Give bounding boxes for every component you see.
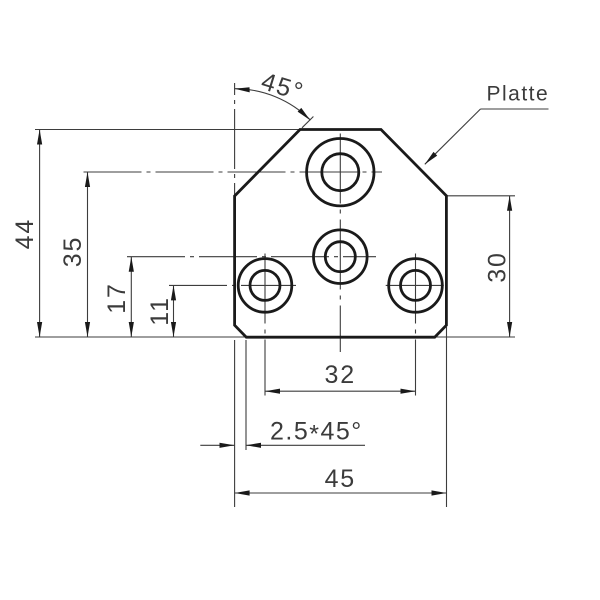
svg-text:44: 44 — [11, 218, 39, 249]
svg-text:Platte: Platte — [487, 82, 550, 105]
svg-text:35: 35 — [59, 236, 87, 267]
svg-text:32: 32 — [324, 361, 355, 389]
svg-text:2.5*45°: 2.5*45° — [270, 418, 363, 449]
svg-text:17: 17 — [103, 282, 131, 313]
svg-text:11: 11 — [146, 296, 174, 326]
svg-text:30: 30 — [484, 251, 512, 282]
svg-text:45: 45 — [325, 465, 356, 493]
